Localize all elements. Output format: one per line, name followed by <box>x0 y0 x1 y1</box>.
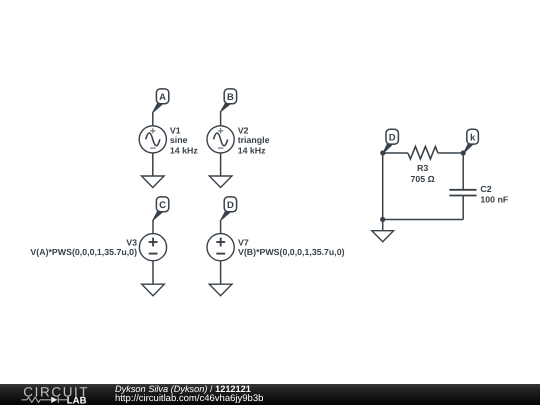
wire <box>152 261 154 284</box>
svg-text:100 nF: 100 nF <box>480 194 508 204</box>
svg-text:V(B)*PWS(0,0,0,1,35.7u,0): V(B)*PWS(0,0,0,1,35.7u,0) <box>238 247 345 257</box>
svg-text:C: C <box>159 200 166 211</box>
capacitor C2 <box>449 190 476 196</box>
svg-text:D: D <box>227 200 234 211</box>
voltage source V7 <box>207 234 234 261</box>
wire <box>462 153 464 190</box>
node A <box>152 89 169 113</box>
wire <box>383 152 408 154</box>
V3 value labels <box>30 238 137 258</box>
R3 value labels <box>411 163 435 184</box>
svg-text:R3: R3 <box>417 163 428 173</box>
svg-text:705 Ω: 705 Ω <box>411 174 435 184</box>
wire <box>152 153 154 176</box>
svg-text:14 kHz: 14 kHz <box>170 145 198 155</box>
node D (source V7) <box>220 197 236 220</box>
node B <box>220 89 237 112</box>
svg-text:sine: sine <box>170 135 188 145</box>
wire <box>220 261 222 284</box>
ground <box>209 176 232 188</box>
svg-text:LAB: LAB <box>67 396 87 405</box>
V2 value labels <box>238 125 270 155</box>
node C <box>152 197 168 220</box>
svg-text:A: A <box>159 92 166 103</box>
svg-text:k: k <box>470 133 476 144</box>
resistor R3 <box>408 147 438 159</box>
junction <box>380 217 385 222</box>
footer bar <box>0 384 540 405</box>
svg-text:14 kHz: 14 kHz <box>238 145 266 155</box>
ground <box>142 284 165 296</box>
svg-text:V1: V1 <box>170 125 181 135</box>
V1 value labels <box>170 125 198 155</box>
junction <box>380 150 385 155</box>
wire <box>383 219 464 221</box>
svg-text:V(A)*PWS(0,0,0,1,35.7u,0): V(A)*PWS(0,0,0,1,35.7u,0) <box>30 247 137 257</box>
svg-text:B: B <box>227 92 234 103</box>
wire <box>382 153 384 220</box>
node D (RC network) <box>383 129 399 153</box>
C2 value labels <box>480 184 508 204</box>
svg-text:triangle: triangle <box>238 135 270 145</box>
wire <box>220 153 222 176</box>
V7 value labels <box>238 238 345 258</box>
voltage source V1 <box>139 126 166 153</box>
ground <box>372 231 394 242</box>
wire <box>152 112 154 126</box>
wire <box>382 220 384 231</box>
wire <box>438 152 463 154</box>
svg-text:D: D <box>389 133 396 144</box>
junction <box>461 150 466 155</box>
ground <box>209 284 232 296</box>
CircuitLab logo <box>0 384 100 405</box>
ground <box>142 176 165 188</box>
node k <box>463 129 478 153</box>
wire <box>220 220 222 234</box>
svg-text:C2: C2 <box>480 184 491 194</box>
wire <box>220 111 222 126</box>
wire <box>152 220 154 234</box>
svg-text:V2: V2 <box>238 125 249 135</box>
voltage source V2 <box>207 126 234 153</box>
voltage source V3 <box>139 234 166 261</box>
wire <box>462 196 464 220</box>
svg-text:V7: V7 <box>238 238 249 248</box>
svg-text:V3: V3 <box>126 238 137 248</box>
